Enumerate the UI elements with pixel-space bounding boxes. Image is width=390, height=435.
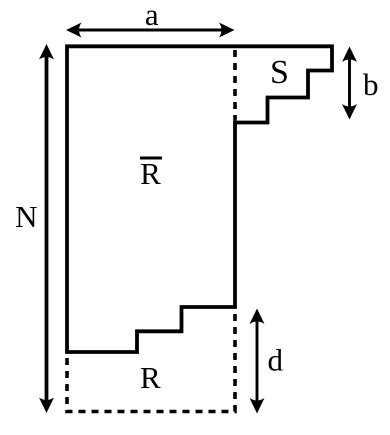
dashed boundary of region R (left, bottom, right) bbox=[67, 309, 235, 412]
region outline (solid polygon boundary of regions R-bar and S) bbox=[67, 46, 332, 352]
svg-text:R: R bbox=[140, 360, 161, 395]
dimension arrow N (vertical, far left) bbox=[39, 44, 54, 413]
svg-text:a: a bbox=[145, 0, 159, 32]
dimension arrow b (vertical, right of staircase S) bbox=[342, 47, 357, 120]
dimension arrow d (vertical, right of region R) bbox=[250, 309, 265, 414]
dashed divider between R-bar and S bbox=[233, 50, 237, 121]
dimension arrow a (horizontal, top) bbox=[66, 23, 235, 38]
svg-text:R: R bbox=[140, 156, 161, 191]
svg-text:N: N bbox=[15, 199, 37, 234]
svg-text:S: S bbox=[270, 54, 289, 91]
svg-text:d: d bbox=[267, 343, 283, 378]
label R-bar bbox=[140, 156, 162, 191]
svg-text:b: b bbox=[363, 67, 379, 102]
